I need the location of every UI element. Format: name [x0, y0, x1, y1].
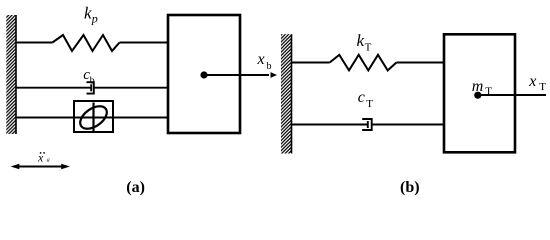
svg-text:x: x	[528, 73, 536, 90]
spring kp	[52, 35, 119, 51]
wire (wall A to spring kp)	[16, 42, 52, 44]
label xT	[528, 73, 546, 93]
spring kT	[330, 55, 397, 71]
arrow xb	[204, 72, 277, 78]
wire (spring kT to mass B)	[396, 62, 444, 64]
wire (spring kp to mass)	[120, 42, 169, 44]
wire (wall B to spring kT)	[292, 62, 330, 64]
hysteresis ellipse	[76, 102, 111, 134]
svg-text:k: k	[357, 31, 365, 50]
hysteresis element box	[74, 101, 113, 132]
mass block B	[444, 34, 515, 152]
svg-text:T: T	[365, 41, 372, 53]
label cT	[358, 89, 374, 110]
node dot on mass A	[200, 71, 207, 78]
damper cb cylinder	[87, 82, 94, 93]
ground motion double arrow	[11, 164, 70, 169]
wire (wall A to damper cb piston)	[16, 87, 91, 89]
node dot on mass B	[474, 92, 481, 99]
displacement line xT	[478, 94, 546, 96]
mass block A	[168, 15, 240, 133]
svg-text:g: g	[47, 157, 50, 163]
damper cT piston	[367, 121, 369, 128]
svg-text:T: T	[539, 81, 546, 93]
label kT	[357, 31, 372, 53]
svg-text:b: b	[90, 76, 95, 87]
damper cT cylinder	[362, 119, 372, 130]
wire (damper cb to mass)	[94, 87, 168, 89]
label x-double-dot g	[37, 151, 50, 165]
label kp	[84, 4, 98, 26]
svg-text:T: T	[366, 98, 373, 110]
wall A (fixed support, figure a)	[6, 15, 16, 134]
hysteresis vertical bar	[92, 103, 94, 133]
svg-text:(b): (b)	[400, 179, 420, 196]
svg-text:b: b	[267, 61, 272, 72]
svg-text:p: p	[91, 12, 98, 26]
svg-text:x: x	[257, 51, 265, 68]
wire (wall A to mass, through hysteresis box)	[16, 117, 168, 119]
label xb	[257, 51, 272, 72]
wire (damper cT to mass B)	[372, 124, 444, 126]
svg-text:c: c	[358, 89, 365, 106]
wall B (fixed support, figure b)	[281, 34, 292, 153]
svg-text:(a): (a)	[126, 179, 145, 196]
label cb	[83, 67, 94, 87]
wire (wall B to damper cT piston)	[292, 124, 368, 126]
damper cb piston	[90, 84, 92, 91]
svg-text:k: k	[84, 4, 92, 23]
label mT	[472, 78, 492, 97]
